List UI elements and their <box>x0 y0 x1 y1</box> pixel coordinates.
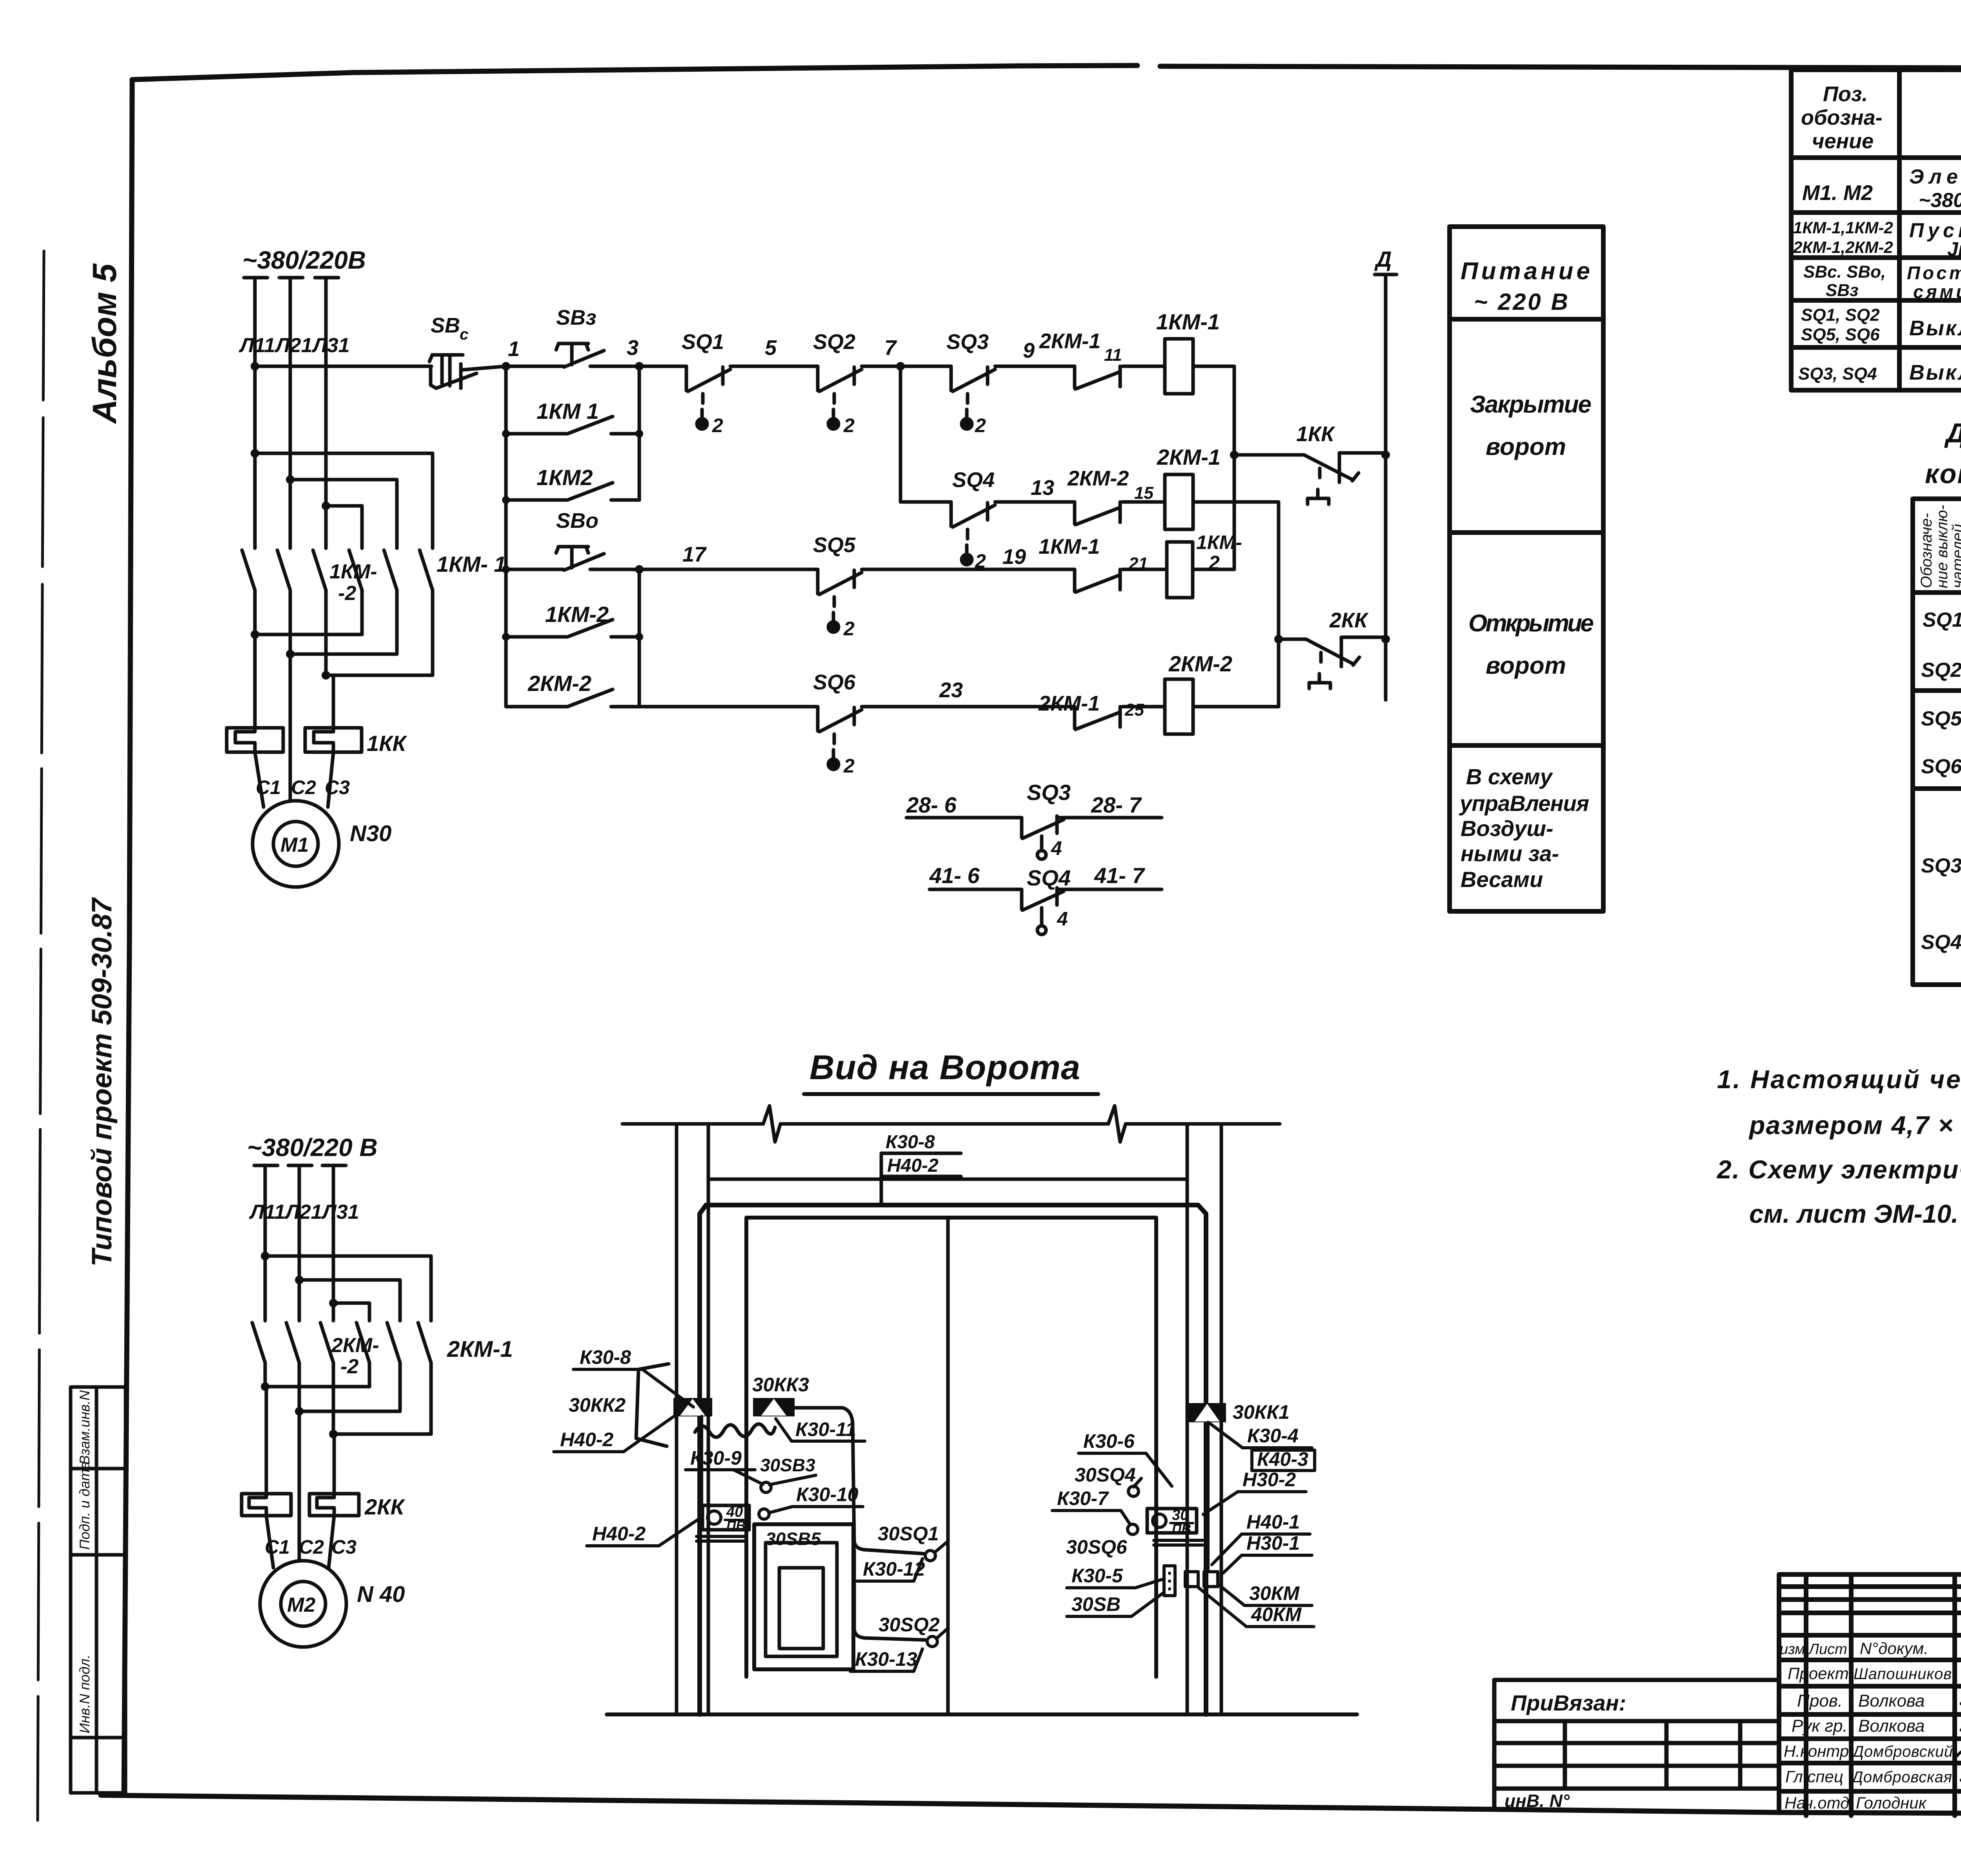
cable drop from 30КК3 <box>795 1408 924 1554</box>
cable box 30КК2 <box>673 1398 712 1416</box>
svg-text:2КМ-2: 2КМ-2 <box>1168 651 1232 676</box>
svg-text:~380В, N = 0,6 кВт.: ~380В, N = 0,6 кВт. <box>1919 189 1961 212</box>
rung2 drop from node7 <box>899 366 902 502</box>
node 3 <box>635 362 644 371</box>
svg-text:Л31: Л31 <box>311 334 350 357</box>
svg-text:1КМ-1,1КМ-2: 1КМ-1,1КМ-2 <box>1793 218 1893 237</box>
svg-text:Обозначе-: Обозначе- <box>1918 513 1935 588</box>
wire node 13 <box>995 500 1075 504</box>
svg-text:чение: чение <box>1812 129 1874 153</box>
title block outline <box>1779 1574 1961 1816</box>
svg-text:К30-9: К30-9 <box>690 1447 742 1469</box>
svg-text:Л21: Л21 <box>274 334 313 357</box>
thermal relay 2КК element B <box>309 1494 359 1516</box>
svg-text:Рук гр.: Рук гр. <box>1792 1716 1848 1736</box>
svg-text:SQ5, SQ6: SQ5, SQ6 <box>1801 325 1880 344</box>
svg-text:Jт.р. = 5А: Jт.р. = 5А <box>1947 238 1961 260</box>
svg-text:2: 2 <box>843 414 855 436</box>
motor feed wires <box>255 752 264 807</box>
device box 30 ПВ <box>1147 1509 1197 1533</box>
wire node 9 <box>995 365 1075 368</box>
svg-text:2: 2 <box>843 618 855 640</box>
svg-text:Инв.N подл.: Инв.N подл. <box>76 1655 93 1733</box>
svg-text:30SВ3: 30SВ3 <box>760 1455 815 1475</box>
svg-text:28- 7: 28- 7 <box>1091 793 1142 817</box>
phase source ticks <box>244 276 338 280</box>
svg-text:40: 40 <box>726 1504 743 1520</box>
svg-text:-2: -2 <box>338 582 356 605</box>
svg-text:15: 15 <box>1134 484 1153 503</box>
svg-text:Электродвигатель АО31-4,: Электродвигатель АО31-4, <box>1909 165 1961 188</box>
svg-text:30КК2: 30КК2 <box>569 1394 626 1416</box>
svg-text:с: с <box>460 326 468 343</box>
sidebar stamp table <box>71 1387 126 1793</box>
cable drop to 30SQ2 <box>854 1550 926 1640</box>
svg-text:1КМ2: 1КМ2 <box>537 465 593 490</box>
SEC:LADDER <box>251 247 1397 777</box>
left bus <box>504 366 508 707</box>
svg-text:Л11: Л11 <box>249 1201 286 1223</box>
coil 1КМ-2 <box>1167 542 1193 598</box>
svg-text:SQ1: SQ1 <box>682 330 724 354</box>
svg-text:Домбровская: Домбровская <box>1850 1769 1952 1786</box>
rung 1КМ-2 contact <box>506 635 567 639</box>
svg-text:41- 7: 41- 7 <box>1094 863 1145 888</box>
svg-text:Воздуш-: Воздуш- <box>1461 816 1554 841</box>
svg-text:ПВ: ПВ <box>1172 1522 1191 1536</box>
pushbutton SB3 <box>556 344 604 367</box>
node dot phase2 <box>286 475 295 484</box>
wire node 5 <box>730 365 818 368</box>
contactor boxes 30КМ 40КМ <box>1185 1572 1198 1587</box>
svg-text:ние выклю-: ние выклю- <box>1934 505 1951 588</box>
diagram table grid <box>1913 499 1961 985</box>
bracket under box <box>697 1535 745 1538</box>
svg-text:2КМ-1: 2КМ-1 <box>1039 329 1101 353</box>
svg-text:Альбом 5: Альбом 5 <box>86 263 124 424</box>
contactor 1КМ-2 power contacts <box>242 550 326 675</box>
svg-text:2КМ-1: 2КМ-1 <box>1157 445 1221 469</box>
NC contact 2КМ-1 rung1 <box>1075 366 1120 389</box>
svg-text:2: 2 <box>975 414 986 436</box>
svg-text:30КК3: 30КК3 <box>752 1374 809 1396</box>
svg-text:2КМ-1: 2КМ-1 <box>1038 692 1100 715</box>
wire main rung <box>251 362 259 371</box>
svg-text:7: 7 <box>884 336 897 360</box>
SEC:TITLEBLOCK <box>1779 1574 1961 1816</box>
svg-text:Проект: Проект <box>1788 1664 1849 1683</box>
svg-text:Диаграмма срабатывания: Диаграмма срабатывания <box>1944 418 1961 448</box>
motor M2 <box>260 1561 346 1647</box>
svg-text:1КМ-: 1КМ- <box>1196 531 1242 553</box>
wire <box>1122 500 1165 504</box>
svg-text:25: 25 <box>1124 700 1144 720</box>
svg-text:SQ6: SQ6 <box>1921 755 1961 778</box>
svg-text:Поз.: Поз. <box>1823 82 1868 106</box>
wire <box>590 365 686 368</box>
svg-text:С2: С2 <box>291 776 316 798</box>
svg-text:инВ. N°: инВ. N° <box>1504 1791 1570 1811</box>
svg-text:К30-4: К30-4 <box>1247 1425 1299 1447</box>
Привязан block <box>1494 1680 1779 1809</box>
limit switch SQ3 <box>951 366 995 429</box>
svg-text:1КК: 1КК <box>1296 422 1335 446</box>
svg-text:С2: С2 <box>299 1536 324 1558</box>
svg-text:30SВ: 30SВ <box>1071 1593 1121 1615</box>
svg-text:Д: Д <box>1374 247 1392 271</box>
svg-text:11: 11 <box>1104 345 1122 365</box>
wire <box>1122 365 1165 368</box>
limit switch SQ6 <box>818 707 862 769</box>
svg-text:Открытие: Открытие <box>1468 610 1594 637</box>
svg-text:30КМ: 30КМ <box>1249 1582 1300 1604</box>
svg-text:чателей: чателей <box>1949 524 1961 588</box>
limit switch SQ1 <box>686 366 730 429</box>
rung 1КМ1 <box>506 432 567 436</box>
frame bottom border <box>101 1795 1961 1816</box>
branch wire 3 to contactor <box>326 506 362 548</box>
floor line <box>607 1712 1357 1716</box>
wire phase Л31 <box>324 279 328 548</box>
lintel line <box>708 1178 1187 1181</box>
SEC:NOTES <box>1716 1065 1961 1228</box>
coil 1КМ-1 <box>1165 339 1193 394</box>
leaves split <box>946 1218 950 1714</box>
svg-text:1КМ-2: 1КМ-2 <box>545 602 609 627</box>
wire node 23 <box>862 705 1075 709</box>
NC contact 1КМ-1 rung3 <box>1075 569 1120 592</box>
right post <box>1186 1124 1189 1714</box>
svg-text:Нач.отд: Нач.отд <box>1785 1794 1849 1812</box>
svg-text:N30: N30 <box>350 821 391 846</box>
svg-text:SQ5: SQ5 <box>813 533 856 557</box>
rung3 wires <box>506 568 564 571</box>
svg-text:SВз: SВз <box>1826 281 1859 300</box>
svg-text:30: 30 <box>1172 1507 1188 1523</box>
SEC:M2 <box>242 1133 513 1647</box>
connector circle 30SQ4 <box>1128 1486 1139 1496</box>
branch wire 1 to contactor <box>255 453 433 548</box>
signatures squiggles <box>1957 1668 1961 1807</box>
svg-text:Вид на Ворота: Вид на Ворота <box>810 1048 1080 1087</box>
connector circle 30SQ6 <box>1128 1524 1138 1534</box>
SEC:AUX <box>906 780 1162 934</box>
svg-text:ворот: ворот <box>1486 433 1566 460</box>
thermal relay 1КК element A <box>227 728 283 752</box>
svg-text:1КМ-1: 1КМ-1 <box>1156 309 1220 334</box>
crossover wire pair2 <box>290 653 397 656</box>
crossover wires M2 <box>265 1385 369 1389</box>
svg-text:Лист: Лист <box>1808 1641 1847 1658</box>
svg-text:2КМ-1,2КМ-2: 2КМ-1,2КМ-2 <box>1793 238 1893 256</box>
wire phase Л31 M2 <box>332 1167 335 1321</box>
svg-text:SВо: SВо <box>556 509 598 533</box>
svg-text:К30-7: К30-7 <box>1057 1487 1109 1509</box>
switch 30SВ small <box>1164 1566 1175 1596</box>
device box 40 ПВ <box>702 1505 749 1530</box>
wire coil1 out <box>1193 366 1234 569</box>
svg-text:13: 13 <box>1031 476 1054 500</box>
left post <box>675 1124 679 1714</box>
svg-text:Н30-1: Н30-1 <box>1246 1532 1300 1554</box>
svg-text:1КМ- 1: 1КМ- 1 <box>437 552 506 576</box>
pushbutton SBc <box>429 355 506 388</box>
SEC:INFOCOL <box>1450 227 1603 911</box>
svg-text:SQ1: SQ1 <box>1923 609 1961 631</box>
svg-text:28- 6: 28- 6 <box>906 793 957 817</box>
svg-text:30SВ5: 30SВ5 <box>766 1529 821 1549</box>
svg-text:упраВления: упраВления <box>1459 791 1589 816</box>
crossover wire pair3 <box>326 674 433 677</box>
svg-text:SВз: SВз <box>556 306 597 329</box>
svg-text:Н30-2: Н30-2 <box>1242 1469 1296 1491</box>
svg-text:~380/220 В: ~380/220 В <box>247 1133 378 1162</box>
svg-text:Н40-2: Н40-2 <box>592 1523 646 1545</box>
wire phase2 to motor <box>289 654 292 801</box>
info column box <box>1450 227 1603 911</box>
svg-text:2КК: 2КК <box>364 1494 406 1519</box>
wire to thermal relay 2 <box>332 675 335 728</box>
thermal NC 1КК <box>1234 453 1386 504</box>
sub bus right <box>638 366 641 500</box>
svg-text:обозна-: обозна- <box>1801 106 1883 129</box>
wire <box>1122 705 1165 709</box>
SEC:PARTSTABLE <box>1791 70 1961 390</box>
svg-text:9: 9 <box>1023 339 1035 362</box>
fold line dash <box>38 251 44 1820</box>
mounting bracket left <box>636 1364 669 1446</box>
svg-text:ными за-: ными за- <box>1461 841 1559 866</box>
svg-text:Домбровский: Домбровский <box>1851 1743 1953 1760</box>
contactor 1КМ-1 power contacts <box>349 550 433 675</box>
phase source ticks M2 <box>254 1164 346 1167</box>
leader drop <box>880 1153 883 1205</box>
person door rects <box>754 1524 853 1669</box>
svg-text:1КК: 1КК <box>367 731 407 756</box>
thermal relay 1КК element B <box>305 728 362 752</box>
svg-text:С1: С1 <box>256 776 281 798</box>
wires post left <box>700 1416 703 1505</box>
svg-text:SQ3, SQ4: SQ3, SQ4 <box>1798 364 1877 384</box>
wall top line <box>622 1106 1280 1142</box>
svg-text:1КМ-1: 1КМ-1 <box>1039 535 1100 558</box>
svg-text:SQ3: SQ3 <box>1921 854 1961 877</box>
svg-text:Закрытие: Закрытие <box>1470 391 1592 418</box>
svg-text:SQ1, SQ2: SQ1, SQ2 <box>1801 305 1880 325</box>
connector circle 30SQ3 <box>761 1482 771 1492</box>
wire <box>1122 568 1167 571</box>
svg-text:SQ2: SQ2 <box>1921 659 1961 682</box>
svg-text:~380/220В: ~380/220В <box>242 246 366 274</box>
svg-text:SQ2: SQ2 <box>813 330 855 354</box>
gate leaves <box>746 1218 1156 1677</box>
svg-text:Волкова: Волкова <box>1858 1691 1925 1711</box>
svg-text:Весами: Весами <box>1461 867 1543 892</box>
svg-text:М1. М2: М1. М2 <box>1802 181 1873 205</box>
svg-text:ворот: ворот <box>1486 652 1566 679</box>
svg-text:контактов конечных выключате: контактов конечных выключателей <box>1925 458 1961 489</box>
svg-text:SQ4: SQ4 <box>952 468 995 492</box>
flexible cable squiggle <box>695 1424 775 1437</box>
svg-text:К30-13: К30-13 <box>855 1648 917 1670</box>
svg-text:2: 2 <box>712 414 723 436</box>
node 1 <box>502 362 510 371</box>
node dot phase1 <box>251 449 259 458</box>
svg-text:Выключатель конечный ВПК-41: Выключатель конечный ВПК-4142У2 <box>1909 361 1961 384</box>
thermal relay 2КК element A <box>242 1494 291 1516</box>
limit switch SQ5 <box>818 569 862 632</box>
right bus Д <box>1384 274 1388 700</box>
parts table grid <box>1791 70 1961 390</box>
svg-text:Голодник: Голодник <box>1856 1794 1927 1812</box>
wires to thermal relays M2 <box>265 1387 268 1494</box>
contactor 2КМ-1 power contacts <box>357 1323 431 1434</box>
frame top border <box>132 65 1137 80</box>
svg-text:Л31: Л31 <box>321 1201 359 1223</box>
limit switch SQ4 <box>951 502 995 565</box>
wire phase Л21 <box>289 279 292 548</box>
svg-text:К30-10: К30-10 <box>796 1483 859 1505</box>
svg-text:Типовой проект 509-30.87: Типовой проект 509-30.87 <box>86 897 118 1267</box>
cable box 30КК3 <box>753 1398 795 1416</box>
svg-text:Шапошников: Шапошников <box>1854 1665 1952 1683</box>
motor M1 <box>253 801 339 887</box>
node dot B <box>1274 635 1283 644</box>
svg-text:SQ3: SQ3 <box>1027 780 1071 805</box>
svg-text:17: 17 <box>682 543 707 566</box>
svg-text:2КМ-2: 2КМ-2 <box>1067 467 1129 490</box>
svg-text:К30-8: К30-8 <box>886 1132 935 1153</box>
svg-text:41- 6: 41- 6 <box>929 863 980 888</box>
node dots M2 <box>261 1252 269 1260</box>
thermal NC 2КК <box>1279 637 1386 689</box>
svg-text:2КМ-2: 2КМ-2 <box>528 671 591 696</box>
bracket under box right <box>1154 1539 1202 1542</box>
svg-text:2: 2 <box>843 755 855 777</box>
svg-text:К30-8: К30-8 <box>580 1346 631 1368</box>
svg-text:N°докум.: N°докум. <box>1860 1639 1928 1658</box>
right cable vertical <box>1206 1422 1210 1572</box>
svg-text:30КК1: 30КК1 <box>1233 1401 1290 1423</box>
svg-text:SQ3: SQ3 <box>946 330 989 354</box>
rung 1КМ2 <box>506 498 567 502</box>
frame left border <box>124 80 132 1795</box>
svg-text:Подп. и дата: Подп. и дата <box>76 1462 93 1550</box>
svg-text:5: 5 <box>765 336 777 360</box>
svg-text:-2: -2 <box>340 1355 358 1378</box>
svg-text:30SQ2: 30SQ2 <box>879 1614 940 1636</box>
wire node 19 <box>862 568 1075 571</box>
svg-text:Л11: Л11 <box>238 334 275 357</box>
svg-text:С3: С3 <box>325 776 350 798</box>
svg-text:Взам.инв.N: Взам.инв.N <box>76 1390 93 1465</box>
cable box 30КК1 <box>1188 1403 1226 1422</box>
NC contact 2КМ-2 rung2 <box>1075 502 1120 525</box>
svg-text:К30-6: К30-6 <box>1083 1430 1135 1452</box>
coil 2КМ-1 <box>1165 474 1193 529</box>
svg-text:Волкова: Волкова <box>1858 1716 1925 1736</box>
wire coil2 out <box>1193 502 1279 707</box>
svg-text:К30-5: К30-5 <box>1071 1565 1123 1587</box>
svg-text:N 40: N 40 <box>357 1582 405 1607</box>
svg-text:40КМ: 40КМ <box>1251 1603 1302 1625</box>
svg-text:С1: С1 <box>265 1536 290 1558</box>
svg-text:4: 4 <box>1051 837 1062 859</box>
svg-text:В схему: В схему <box>1466 764 1554 789</box>
svg-text:2КМ-1: 2КМ-1 <box>447 1336 513 1362</box>
svg-text:2. Схему электрическую принц: 2. Схему электрическую принципиальную по… <box>1716 1155 1961 1184</box>
svg-text:Гл.спец: Гл.спец <box>1785 1767 1843 1786</box>
svg-text:30SQ6: 30SQ6 <box>1066 1536 1128 1558</box>
wire phase Л21 M2 <box>298 1167 301 1321</box>
svg-text:1КМ-: 1КМ- <box>329 560 377 583</box>
crossover wire pair1 <box>255 633 362 636</box>
svg-text:1КМ 1: 1КМ 1 <box>537 399 599 424</box>
node dot A <box>1230 451 1239 459</box>
svg-text:Пров.: Пров. <box>1797 1691 1843 1711</box>
motor feed wires M2 <box>266 1516 273 1568</box>
svg-text:Н40-2: Н40-2 <box>560 1429 613 1451</box>
svg-text:SQ5: SQ5 <box>1921 707 1961 730</box>
contactor 2КМ-2 power contacts <box>252 1323 333 1434</box>
sub bus right lower <box>638 569 641 707</box>
narrow top rows <box>1779 1584 1961 1589</box>
svg-text:Л21: Л21 <box>284 1201 322 1223</box>
SEC:GATE <box>554 1048 1357 1714</box>
branch wire 2 to contactor <box>290 480 397 548</box>
svg-text:Н.контр: Н.контр <box>1784 1742 1849 1760</box>
svg-text:ПриВязан:: ПриВязан: <box>1511 1691 1626 1715</box>
title block columns <box>1804 1574 1808 1816</box>
svg-text:ПВ: ПВ <box>726 1518 746 1533</box>
SEC:M1 <box>227 246 506 887</box>
svg-text:3: 3 <box>627 336 639 360</box>
rung 2КМ-2 contact <box>506 705 567 709</box>
svg-text:1: 1 <box>508 337 520 361</box>
svg-text:Н40-1: Н40-1 <box>1246 1511 1300 1533</box>
svg-text:М2: М2 <box>287 1594 315 1616</box>
svg-text:2КМ-: 2КМ- <box>331 1334 379 1357</box>
svg-text:30SQ4: 30SQ4 <box>1075 1464 1136 1486</box>
limit switch SQ2 <box>818 366 862 429</box>
svg-text:19: 19 <box>1002 545 1026 569</box>
svg-text:С3: С3 <box>331 1536 357 1558</box>
svg-text:SВс. SВо,: SВс. SВо, <box>1803 262 1886 282</box>
svg-text:1. Настоящий чертеж разработ: 1. Настоящий чертеж разработан для распа… <box>1717 1065 1961 1094</box>
svg-text:SQ4: SQ4 <box>1921 931 1961 954</box>
wire coil3 out <box>1193 568 1234 571</box>
connector circle 30SQ5 <box>759 1509 769 1519</box>
svg-text:23: 23 <box>939 678 963 702</box>
wire phase Л11 <box>253 279 257 548</box>
svg-text:см. лист ЭМ-10.: см. лист ЭМ-10. <box>1749 1199 1958 1228</box>
pushbutton SBo <box>556 547 604 570</box>
svg-text:Выключатель конечный ВПК-414: Выключатель конечный ВПК-4141У2 <box>1909 316 1961 340</box>
wire to thermal relay 1 <box>253 634 257 728</box>
svg-text:30SQ1: 30SQ1 <box>878 1523 939 1545</box>
wire phase Л11 M2 <box>264 1167 267 1321</box>
svg-text:SQ6: SQ6 <box>813 671 856 694</box>
svg-text:М1: М1 <box>280 834 309 856</box>
branch wires M2 <box>265 1256 431 1321</box>
svg-text:Н40-2: Н40-2 <box>887 1155 939 1176</box>
svg-text:изм: изм <box>1780 1641 1805 1658</box>
wire <box>506 365 564 368</box>
node dot phase3 <box>322 502 330 510</box>
svg-text:2КК: 2КК <box>1329 609 1369 632</box>
frame top border right part <box>1160 66 1961 69</box>
NC contact 2КМ-1 rung4 <box>1075 707 1120 729</box>
